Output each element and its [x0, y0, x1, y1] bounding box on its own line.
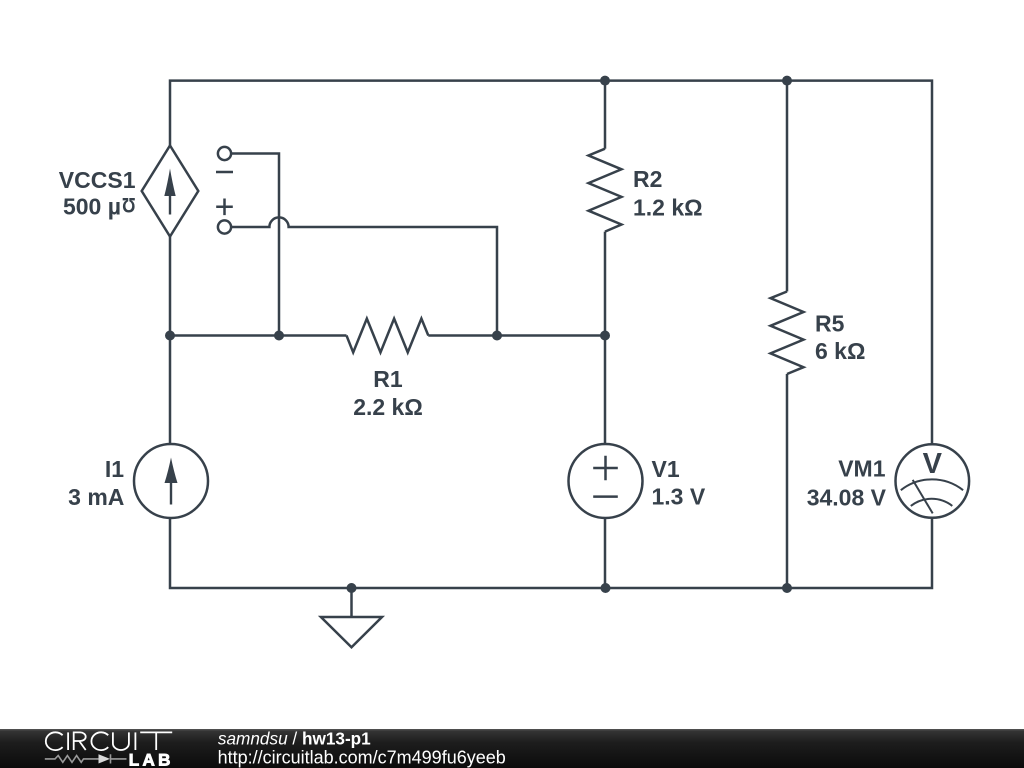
logo CIRCUIT letters [46, 732, 172, 750]
footer url [218, 748, 506, 768]
minus sign [216, 171, 233, 174]
svg-text:I1: I1 [105, 456, 124, 482]
V1 plus [593, 456, 618, 481]
I1 arrow [165, 458, 178, 505]
footer title [218, 728, 371, 748]
node dot bottom R5 [782, 583, 792, 593]
svg-text:VCCS1: VCCS1 [59, 167, 136, 193]
svg-text:LAB: LAB [129, 751, 174, 768]
wire VCCS1 plus terminal with hop [231, 217, 497, 335]
svg-text:V1: V1 [652, 456, 680, 482]
svg-text:R2: R2 [633, 166, 662, 192]
wire R5 bottom stem [786, 374, 789, 588]
node dot mid R1 right [492, 331, 502, 341]
terminal nB (plus) [218, 220, 231, 233]
svg-text:V: V [923, 448, 943, 480]
wire R5 top stem [786, 81, 789, 292]
wire top rail with right vertical [170, 81, 932, 445]
svg-text:Ω: Ω [122, 193, 136, 217]
terminal nA (minus) [218, 147, 231, 160]
VM1 V letter [923, 448, 943, 480]
resistor R5 [771, 292, 804, 375]
wire VCCS1 minus terminal loop [231, 154, 279, 336]
svg-text:1.2 kΩ: 1.2 kΩ [633, 195, 703, 221]
VM1 needle [913, 480, 933, 514]
node dot top R2 [600, 76, 610, 86]
wire V1 bottom stem [604, 518, 607, 588]
node dot mid vccs minus [274, 331, 284, 341]
svg-text:2.2 kΩ: 2.2 kΩ [353, 394, 423, 420]
wire R2 top stem [604, 81, 607, 149]
svg-text:500 µ: 500 µ [63, 193, 121, 219]
node dot top R5 [782, 76, 792, 86]
logo LAB [129, 751, 174, 768]
voltage source V1 [569, 444, 643, 518]
node dot mid R2 [600, 331, 610, 341]
voltmeter VM1 [896, 444, 970, 518]
VM1 meter arcs [901, 479, 963, 513]
svg-text:1.3 V: 1.3 V [652, 484, 706, 510]
wire mid rail right [428, 334, 605, 337]
svg-text:34.08 V: 34.08 V [807, 485, 887, 511]
vccs VCCS1 arrow [164, 169, 175, 215]
V1 minus [593, 495, 618, 498]
wire mid rail left [170, 334, 347, 337]
plus sign [216, 199, 233, 216]
svg-text:3 mA: 3 mA [68, 484, 124, 510]
footer bar [0, 729, 1024, 768]
node dot mid left [165, 331, 175, 341]
ground [350, 588, 353, 617]
resistor R1 [347, 319, 429, 353]
logo diode [99, 754, 111, 763]
node dot bottom V1 [601, 583, 611, 593]
svg-text:R5: R5 [815, 311, 845, 337]
svg-text:samndsu / hw13-p1: samndsu / hw13-p1 [218, 728, 371, 748]
wire left vertical mid [169, 237, 172, 445]
svg-text:6 kΩ: 6 kΩ [815, 338, 865, 364]
svg-text:http://circuitlab.com/c7m499fu: http://circuitlab.com/c7m499fu6yeeb [218, 748, 506, 768]
svg-text:R1: R1 [373, 366, 403, 392]
wire R2 bottom stem to V1 [604, 232, 607, 445]
node dot ground [347, 583, 357, 593]
vccs VCCS1 diamond [142, 146, 199, 237]
svg-text:VM1: VM1 [838, 456, 886, 482]
resistor R2 [589, 149, 622, 232]
wire bottom rail with right vertical [170, 518, 932, 588]
logo squiggle resistor [45, 756, 99, 763]
current source I1 [134, 444, 208, 518]
